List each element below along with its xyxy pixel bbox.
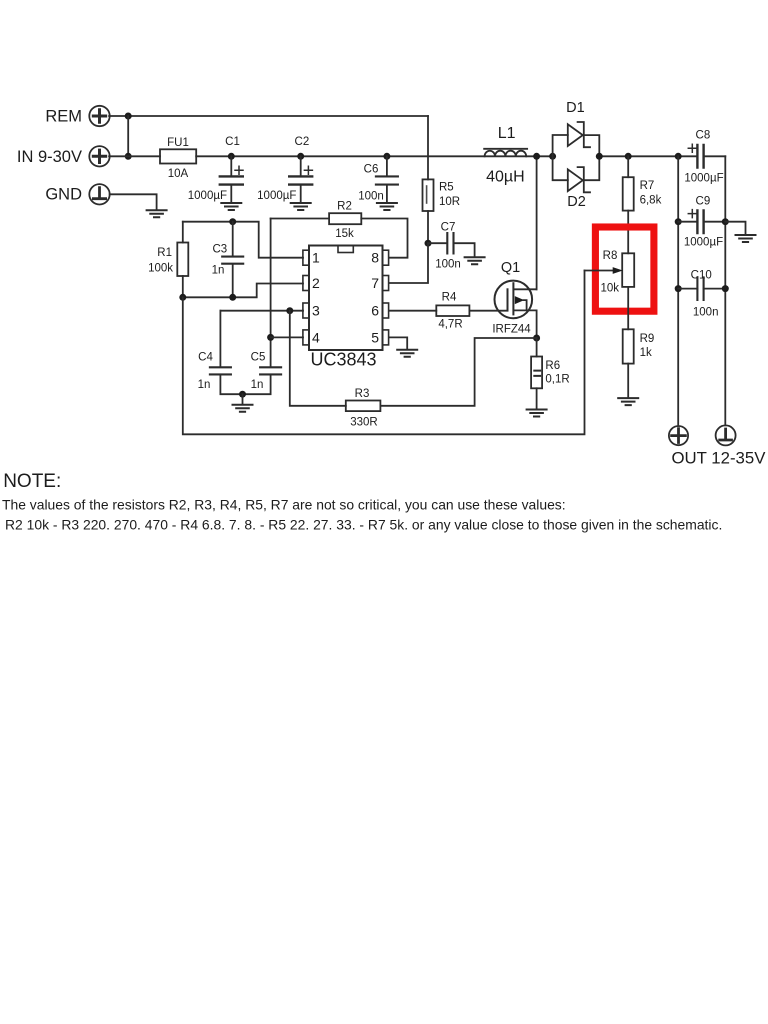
polarity plus (C8) <box>688 144 696 152</box>
svg-text:1n: 1n <box>198 379 211 391</box>
svg-text:1k: 1k <box>640 347 652 359</box>
wire REM to IN rail <box>127 116 129 156</box>
resistor R7 <box>623 153 662 211</box>
ground (C7) <box>465 257 485 264</box>
ground (C6) <box>377 203 397 210</box>
svg-text:2: 2 <box>312 275 320 291</box>
svg-text:The values of the resistors R2: The values of the resistors R2, R3, R4, … <box>2 497 566 513</box>
wire REM to R5 <box>109 115 428 117</box>
node C10 right <box>722 285 729 292</box>
svg-text:100k: 100k <box>148 263 173 275</box>
node diode branch right <box>596 153 603 160</box>
wire pin3 <box>220 310 303 312</box>
capacitor C2 <box>257 136 312 203</box>
svg-text:10k: 10k <box>601 282 620 294</box>
svg-text:7: 7 <box>371 275 379 291</box>
wire Q1 drain to rail <box>536 156 538 289</box>
wire IN to fuse <box>109 155 160 157</box>
polarity plus (C1) <box>235 166 243 174</box>
L1 core bar <box>484 148 527 150</box>
svg-text:R2: R2 <box>337 201 352 213</box>
wire R1/C3 top rail to pin1 <box>183 222 303 258</box>
node C1 tap <box>228 153 235 160</box>
svg-text:NOTE:: NOTE: <box>3 471 61 492</box>
svg-text:4,7R: 4,7R <box>438 319 462 331</box>
node drain/L1 <box>533 153 540 160</box>
svg-text:40µH: 40µH <box>486 169 525 186</box>
node C9 right <box>722 218 729 225</box>
node C10 left <box>675 285 682 292</box>
wire R7 to R8 <box>627 211 629 254</box>
svg-text:10R: 10R <box>439 196 460 208</box>
diode D2 <box>553 156 600 210</box>
wire to ground <box>242 394 244 404</box>
svg-text:R7: R7 <box>640 180 655 192</box>
svg-text:R4: R4 <box>442 292 457 304</box>
svg-text:1n: 1n <box>212 265 225 277</box>
svg-text:10A: 10A <box>168 168 189 180</box>
node IN junction <box>125 153 132 160</box>
capacitor C6 <box>358 153 398 203</box>
capacitor C10 <box>675 270 729 319</box>
svg-text:R1: R1 <box>157 247 172 259</box>
node pin3 <box>286 307 293 314</box>
svg-text:D2: D2 <box>567 194 586 210</box>
wire GND to ground <box>110 194 157 210</box>
wire R8 to R9 <box>627 287 629 329</box>
node R5/C7/pin7 <box>425 240 432 247</box>
inductor L1 <box>484 125 527 186</box>
node C6 tap <box>383 153 390 160</box>
highlight red box around R8 <box>595 227 654 311</box>
svg-text:0,1R: 0,1R <box>545 374 569 386</box>
svg-text:1000µF: 1000µF <box>684 173 723 185</box>
svg-text:1000µF: 1000µF <box>257 190 296 202</box>
svg-text:C8: C8 <box>696 130 711 142</box>
R8 wiper wire <box>585 270 614 272</box>
terminal OUT plus <box>669 426 688 445</box>
resistor R3 <box>346 388 381 429</box>
svg-text:IRFZ44: IRFZ44 <box>492 324 531 336</box>
svg-text:C1: C1 <box>225 136 240 148</box>
svg-text:IN 9-30V: IN 9-30V <box>17 148 82 166</box>
wire pin5 to ground <box>389 337 407 349</box>
node R1 bottom <box>179 294 186 301</box>
ground (pin5) <box>397 350 417 357</box>
node C8 left <box>675 153 682 160</box>
capacitor C5 <box>243 352 282 395</box>
R8 wiper arrow <box>613 267 623 274</box>
terminal OUT gnd <box>716 425 736 445</box>
resistor R9 <box>623 329 655 398</box>
svg-text:100n: 100n <box>435 259 461 271</box>
svg-text:100n: 100n <box>358 191 384 203</box>
wire Q1 source down <box>536 310 538 338</box>
node C2 tap <box>297 153 304 160</box>
svg-text:330R: 330R <box>350 417 378 429</box>
svg-text:5: 5 <box>371 329 379 345</box>
pin 2 stub <box>303 276 309 291</box>
wire feedback R1 bottom to R8 wiper <box>183 271 585 435</box>
wire R5 to C7 node <box>427 211 429 243</box>
svg-text:1000µF: 1000µF <box>188 190 227 202</box>
svg-text:1: 1 <box>312 250 320 266</box>
pin 4 stub <box>303 330 309 345</box>
ground (input) <box>147 210 167 217</box>
capacitor C9 <box>675 196 729 249</box>
svg-text:R6: R6 <box>545 360 560 372</box>
Q1 body circle <box>495 281 533 319</box>
Q1 channel bar <box>512 283 514 314</box>
transistor Q1 IRFZ44 <box>492 260 536 336</box>
svg-text:OUT 12-35V: OUT 12-35V <box>672 448 767 467</box>
svg-text:C3: C3 <box>212 244 227 256</box>
svg-text:C9: C9 <box>696 196 711 208</box>
svg-text:15k: 15k <box>335 228 354 240</box>
resistor R6 <box>531 338 570 409</box>
svg-text:6: 6 <box>371 303 379 319</box>
svg-text:C10: C10 <box>691 270 712 282</box>
svg-text:8: 8 <box>371 250 379 266</box>
polarity plus (C9) <box>688 210 696 218</box>
Q1 body arrow <box>515 296 524 304</box>
resistor R4 <box>389 292 508 331</box>
wire C8 right to rail <box>704 155 726 157</box>
wire pin3 node to R3 <box>290 311 346 406</box>
svg-text:R8: R8 <box>603 250 618 262</box>
Q1 gate bar <box>507 289 509 310</box>
svg-text:6,8k: 6,8k <box>640 195 662 207</box>
svg-text:1n: 1n <box>251 379 264 391</box>
wire output gnd rail <box>724 156 726 425</box>
ground (C1) <box>221 203 241 210</box>
fuse FU1 <box>160 137 196 180</box>
resistor R2 <box>271 201 408 258</box>
pin 5 stub <box>383 330 389 345</box>
node source/R6 <box>533 335 540 342</box>
svg-text:R2 10k - R3 220. 270. 470 - R4: R2 10k - R3 220. 270. 470 - R4 6.8. 7. 8… <box>5 517 722 533</box>
terminal GND <box>45 184 109 204</box>
node C3 bottom <box>229 294 236 301</box>
svg-text:4: 4 <box>312 329 320 345</box>
wire R2 left to pin4/C5 riser <box>270 219 272 367</box>
pin 8 stub <box>383 250 389 265</box>
svg-text:L1: L1 <box>498 125 516 142</box>
capacitor C4 <box>198 311 243 395</box>
node C4/C5 ground <box>239 391 246 398</box>
capacitor C1 <box>188 136 243 203</box>
svg-text:D1: D1 <box>566 100 585 116</box>
ground (R9) <box>618 398 638 405</box>
node pin4 <box>267 334 274 341</box>
Q1 drain/source taps <box>513 289 536 310</box>
resistor R5 <box>423 116 461 211</box>
wire pin4 <box>271 336 303 338</box>
terminal REM <box>45 106 109 126</box>
svg-text:Q1: Q1 <box>501 260 520 276</box>
polarity plus (C2) <box>304 166 312 174</box>
ground (output) <box>736 235 756 242</box>
svg-text:GND: GND <box>45 186 82 204</box>
ground (C4/C5) <box>233 405 253 412</box>
svg-text:R5: R5 <box>439 182 454 194</box>
wire output plus rail <box>677 156 679 426</box>
wire C9 node to ground <box>725 222 745 235</box>
svg-text:C6: C6 <box>364 164 379 176</box>
svg-text:3: 3 <box>312 303 320 319</box>
svg-text:100n: 100n <box>693 307 719 319</box>
pin 3 stub <box>303 303 309 318</box>
IC U1 UC3843 <box>303 246 389 370</box>
potentiometer R8 <box>585 250 635 294</box>
node C3 top <box>229 218 236 225</box>
svg-text:FU1: FU1 <box>167 137 189 149</box>
wire R1/C3 bottom rail to pin2 <box>183 284 303 298</box>
wire source node to R3 <box>380 338 536 406</box>
resistor R1 <box>148 222 188 298</box>
wire rail diodes to C8 <box>599 155 697 157</box>
pin 7 stub <box>383 276 389 291</box>
svg-text:C2: C2 <box>295 136 310 148</box>
capacitor C7 <box>428 222 475 271</box>
IC body (U1) <box>309 246 383 351</box>
node diode branch left <box>549 153 556 160</box>
ground (C2) <box>291 203 311 210</box>
svg-text:C4: C4 <box>198 352 213 364</box>
svg-text:R3: R3 <box>355 388 370 400</box>
wire C7 node to pin7 <box>389 243 428 283</box>
pin 6 stub <box>383 303 389 318</box>
capacitor C8 <box>675 130 724 185</box>
node R7 tap <box>625 153 632 160</box>
svg-text:R9: R9 <box>640 333 655 345</box>
node REM junction <box>125 113 132 120</box>
wire main rail <box>196 155 552 157</box>
svg-text:REM: REM <box>45 108 82 126</box>
ground (R6) <box>527 410 547 417</box>
svg-text:C5: C5 <box>251 352 266 364</box>
terminal IN 9-30V <box>17 146 110 166</box>
capacitor C3 <box>212 222 244 298</box>
svg-text:1000µF: 1000µF <box>684 237 723 249</box>
IC notch <box>338 246 353 253</box>
pin 1 stub <box>303 250 309 265</box>
svg-text:C7: C7 <box>441 222 456 234</box>
svg-text:UC3843: UC3843 <box>310 350 376 370</box>
node C9 left <box>675 218 682 225</box>
diode D1 <box>553 100 600 156</box>
